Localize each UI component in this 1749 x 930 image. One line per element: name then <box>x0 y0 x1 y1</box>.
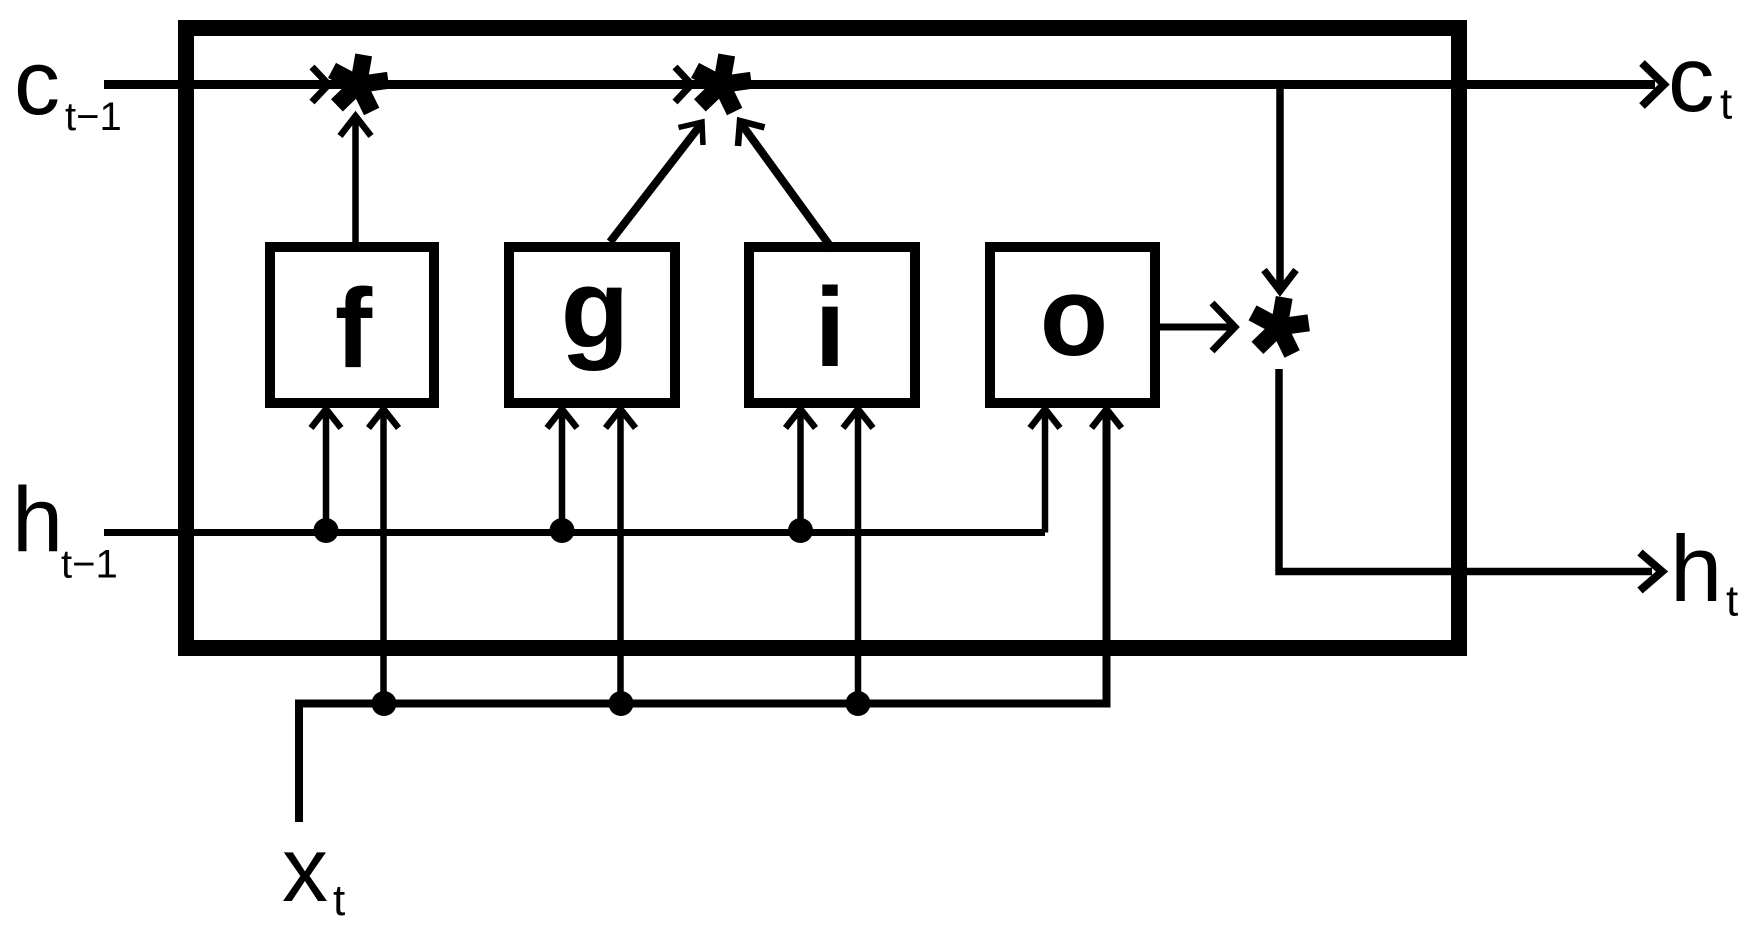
svg-text:h: h <box>12 469 63 571</box>
multiply node star 1 (forget gate) <box>328 53 389 115</box>
wire x_t bus <box>299 411 1107 822</box>
wire o to star 3 <box>1160 324 1233 331</box>
junction dot x-f <box>372 691 397 716</box>
wire x to o (right input, corner) <box>1092 409 1122 428</box>
gate box i <box>749 247 915 403</box>
arrowhead at c_t output <box>1642 63 1664 106</box>
wire h to i (left input) <box>797 411 804 533</box>
svg-text:t: t <box>333 876 345 925</box>
junction dot h-g <box>550 518 575 543</box>
multiply node star 3 (output gate) <box>1249 296 1310 358</box>
wire x to g (right input) <box>617 411 624 704</box>
wire h to o (left input, corner) <box>1042 411 1049 533</box>
svg-text:c: c <box>14 32 60 134</box>
LSTM cell boundary box <box>186 28 1459 648</box>
wire c line down to star 3 <box>1276 89 1284 289</box>
junction dot h-f <box>314 518 339 543</box>
svg-text:o: o <box>1040 254 1108 379</box>
wire i to star 2 (diagonal) <box>740 122 833 250</box>
svg-text:t: t <box>1726 577 1738 626</box>
wire star 3 to h_t output <box>1279 369 1652 572</box>
gate box g <box>509 247 675 403</box>
svg-text:x: x <box>282 819 328 921</box>
wire x to f (right input) <box>380 411 387 704</box>
svg-text:g: g <box>561 246 629 371</box>
svg-text:i: i <box>814 265 845 390</box>
svg-text:h: h <box>1670 516 1722 621</box>
arrowhead into multiply star 1 <box>312 67 329 102</box>
wire c_{t-1} to c_t (cell state line) <box>104 80 1655 89</box>
svg-text:t−1: t−1 <box>61 543 118 587</box>
arrowhead into multiply star 2 <box>675 67 692 102</box>
wire h to g (left input) <box>559 411 566 533</box>
multiply node star 2 (cell update) <box>691 53 752 115</box>
junction dot x-i <box>846 691 871 716</box>
svg-text:t: t <box>1720 80 1732 129</box>
wire f to star 1 <box>352 117 359 242</box>
svg-text:f: f <box>335 266 373 391</box>
junction dot x-g <box>609 691 634 716</box>
wire x to i (right input) <box>855 411 862 704</box>
svg-text:t−1: t−1 <box>65 95 122 139</box>
gate box o <box>990 247 1155 403</box>
junction dot h-i <box>788 518 813 543</box>
wire h_{t-1} bus <box>104 529 1045 536</box>
wire h to f (left input) <box>323 411 330 533</box>
gate box f <box>270 247 434 403</box>
svg-text:c: c <box>1668 27 1715 131</box>
wire g to star 2 (diagonal) <box>610 123 702 242</box>
